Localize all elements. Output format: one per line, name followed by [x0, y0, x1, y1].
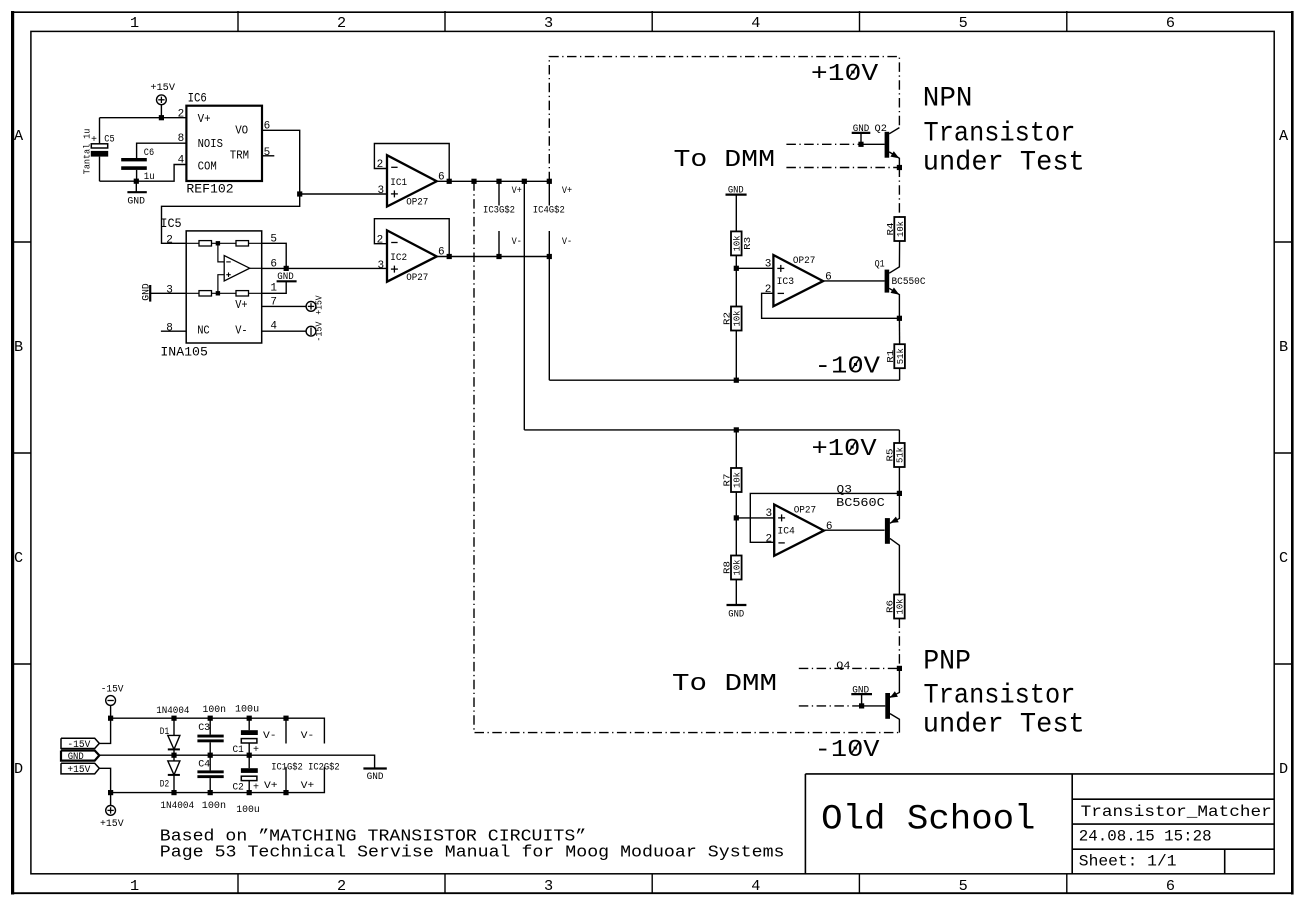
svg-text:+10V: +10V: [811, 61, 879, 88]
connector flag -15V: [61, 718, 111, 751]
svg-text:Q1: Q1: [875, 260, 885, 271]
svg-text:8: 8: [178, 133, 185, 145]
svg-text:4: 4: [751, 877, 760, 895]
wire IC4 output to Q3 base: [824, 529, 885, 531]
frame row labels right: [1279, 127, 1289, 778]
wire -10V net from IC2 output: [437, 254, 552, 259]
svg-text:1: 1: [270, 283, 277, 295]
svg-text:IC3: IC3: [777, 277, 795, 288]
op-amp IC2 OP27: [377, 230, 445, 284]
svg-text:C: C: [14, 549, 23, 567]
IC2 feedback wire pin2 to pin6: [374, 219, 449, 257]
frame column labels bottom: [130, 877, 1175, 895]
op-amp IC4 OP27: [766, 505, 833, 556]
svg-text:6: 6: [1166, 14, 1175, 32]
svg-text:IC3G$2: IC3G$2: [483, 204, 515, 216]
wire C5/C6 bottom to IC6 pin4: [100, 165, 187, 184]
resistor R8 10k: [722, 518, 743, 605]
svg-text:3: 3: [544, 877, 553, 895]
svg-text:OP27: OP27: [793, 256, 816, 267]
resistor R3 10k: [731, 231, 753, 255]
svg-text:Transistor: Transistor: [924, 118, 1076, 149]
ground symbol GND right of PSU: [363, 769, 386, 784]
svg-text:Page 53 Technical Servise Manu: Page 53 Technical Servise Manual for Moo…: [160, 844, 785, 863]
wire V+ rail: [108, 767, 324, 795]
svg-text:Tantal 1u: Tantal 1u: [82, 129, 93, 175]
net label +10V (NPN): [811, 61, 879, 88]
frame column labels top: [130, 14, 1175, 32]
svg-text:OP27: OP27: [794, 506, 817, 517]
IC5 pin 5 feedback wire: [262, 234, 287, 269]
svg-text:C5: C5: [104, 134, 114, 145]
svg-text:2: 2: [166, 234, 173, 246]
svg-text:3: 3: [766, 508, 773, 520]
svg-text:V+: V+: [512, 186, 522, 197]
capacitor C3 100n: [197, 718, 223, 755]
capacitor C4 100n: [197, 755, 223, 792]
svg-text:GND: GND: [367, 772, 384, 783]
svg-text:IC4G$2: IC4G$2: [533, 204, 565, 216]
IC IC5 INA105 body: [160, 216, 261, 359]
svg-text:6: 6: [826, 521, 833, 533]
svg-text:C1: C1: [233, 745, 244, 756]
IC IC6 REF102 body: [186, 90, 262, 196]
svg-text:R3: R3: [742, 237, 753, 250]
title block outline: [805, 774, 1274, 874]
svg-text:OP27: OP27: [406, 273, 428, 284]
dash-dot wire Q4 emitter to DMM: [799, 661, 902, 672]
svg-text:Sheet: 1/1: Sheet: 1/1: [1079, 853, 1177, 871]
svg-text:GND: GND: [853, 124, 870, 135]
wire R3 to IC3 pin3 node: [734, 255, 774, 271]
svg-text:-10V: -10V: [815, 737, 880, 764]
svg-text:V-: V-: [512, 237, 522, 248]
svg-text:51k: 51k: [895, 447, 906, 463]
svg-text:IC4: IC4: [777, 526, 795, 537]
IC1 feedback wire pin2 to pin6: [374, 144, 449, 182]
svg-text:Q3: Q3: [837, 485, 852, 497]
capacitor C5 Tantal 1u: [82, 118, 115, 182]
op-amp IC1 OP27: [377, 155, 445, 209]
frame row dividers right band: [1274, 242, 1292, 664]
svg-text:INA105: INA105: [160, 344, 208, 359]
wire +10V net from IC1 output: [437, 179, 552, 184]
svg-text:C: C: [1279, 549, 1288, 567]
ground symbol GND below R8: [727, 605, 747, 621]
svg-text:PNP: PNP: [923, 646, 971, 677]
svg-text:100u: 100u: [236, 805, 259, 816]
resistor R4 10k: [885, 217, 906, 241]
capacitor C6 1u: [121, 143, 186, 183]
svg-text:OP27: OP27: [406, 198, 428, 209]
dash-dot wire Q2 emitter to DMM: [786, 167, 899, 169]
svg-text:2: 2: [377, 234, 384, 246]
IC1 supply stub V-: [285, 718, 287, 743]
IC5 pin 3 wire and GND symbol: [142, 283, 187, 301]
svg-text:2: 2: [178, 109, 185, 121]
resistor R6 10k: [885, 595, 906, 619]
svg-text:-10V: -10V: [815, 354, 881, 381]
resistor R7 10k: [722, 430, 743, 518]
IC6 pin number 5 and TRM stub: [262, 147, 274, 159]
frame row labels left: [14, 127, 24, 778]
svg-text:To DMM: To DMM: [674, 147, 776, 174]
svg-text:B: B: [1279, 338, 1288, 356]
svg-text:3: 3: [765, 259, 772, 271]
frame column dividers top band: [238, 11, 1067, 31]
wire +10V top rail (PNP): [524, 427, 899, 432]
wire -10V bottom rail (NPN): [549, 378, 899, 383]
svg-text:C6: C6: [144, 148, 154, 159]
svg-text:3: 3: [378, 185, 385, 197]
resistor R2 10k: [722, 268, 743, 380]
IC5 internal input resistors and op-amp: [186, 241, 262, 296]
IC1 supply stub V+: [285, 767, 287, 793]
frame column dividers bottom band: [238, 875, 1067, 894]
ground symbol GND above R3: [726, 186, 747, 197]
transistor Q1 BC550C: [875, 260, 926, 319]
svg-text:GND: GND: [852, 685, 869, 696]
wire IC6 VO to IC1 pin3 and IC5 pin2: [162, 130, 388, 243]
wire +15V to IC6 pin2 and C5: [100, 115, 187, 120]
svg-text:+: +: [253, 745, 259, 756]
svg-text:5: 5: [959, 14, 968, 32]
frame row dividers left band: [11, 242, 31, 664]
svg-text:GND: GND: [142, 283, 153, 300]
svg-text:GND: GND: [127, 196, 145, 207]
svg-text:4: 4: [270, 321, 277, 333]
IC3 supply stub V+: [498, 181, 500, 205]
svg-text:2: 2: [337, 877, 346, 895]
svg-text:1: 1: [130, 14, 139, 32]
svg-text:V-: V-: [235, 324, 247, 337]
svg-text:D1: D1: [160, 727, 169, 738]
svg-text:1: 1: [130, 877, 139, 895]
svg-text:Transistor: Transistor: [924, 681, 1076, 712]
svg-text:GND: GND: [277, 272, 294, 283]
svg-text:10k: 10k: [732, 235, 743, 251]
svg-text:C4: C4: [198, 759, 210, 770]
wire -10V vertical to NPN bottom rail: [548, 257, 550, 381]
wire R7 to IC4 pin3 node: [734, 515, 775, 520]
svg-text:24.08.15 15:28: 24.08.15 15:28: [1079, 827, 1212, 845]
diode D1 1N4004: [160, 718, 180, 755]
svg-text:1N4004: 1N4004: [160, 801, 194, 812]
op-amp IC3 OP27: [765, 255, 832, 306]
capacitor C2 100u polarized: [233, 755, 260, 793]
dash-dot DMM loop PNP +10V to Q4 rail: [474, 181, 900, 732]
dash-dot DMM loop NPN +10V to Q2 collector: [549, 57, 899, 182]
wire IC3 output to Q1 base: [823, 280, 885, 282]
IC3 feedback wire pin2 to Q1 emitter: [762, 293, 902, 321]
svg-text:10k: 10k: [895, 598, 906, 614]
capacitor C1 100u polarized: [233, 718, 260, 756]
svg-text:IC2: IC2: [390, 253, 407, 264]
svg-text:A: A: [14, 127, 24, 145]
svg-text:under Test: under Test: [923, 710, 1085, 741]
wire V+ vertical to PNP rail: [523, 181, 525, 430]
svg-text:D2: D2: [160, 780, 169, 791]
ground symbol GND at Q2 base: [852, 124, 871, 147]
resistor R5 51k: [885, 430, 906, 494]
ground symbol GND at Q4 base: [851, 685, 872, 708]
ground symbol GND at IC5 pin1: [262, 272, 297, 295]
IC4 feedback wire pin2 to Q3 emitter node: [750, 491, 902, 543]
svg-text:-15V: -15V: [314, 321, 325, 341]
svg-text:VO: VO: [235, 124, 248, 137]
svg-text:V+: V+: [264, 781, 278, 792]
net label -10V (NPN): [815, 354, 881, 381]
svg-text:BC560C: BC560C: [836, 497, 885, 510]
supply symbol +15V at IC6: [150, 83, 175, 118]
wire R4 to Q1 collector: [889, 241, 899, 273]
svg-text:8: 8: [166, 323, 173, 335]
svg-text:V+: V+: [235, 299, 247, 312]
net label -10V (PNP): [815, 737, 880, 764]
resistor R1 51k: [885, 318, 906, 380]
net label +10V (PNP): [812, 436, 878, 463]
dash-dot wire Q2 base to DMM: [786, 143, 884, 145]
connector flag GND: [61, 751, 99, 763]
svg-text:A: A: [1279, 127, 1289, 145]
svg-text:C2: C2: [233, 783, 244, 794]
svg-text:Old School: Old School: [821, 800, 1035, 840]
svg-text:Q2: Q2: [875, 124, 887, 135]
svg-text:C3: C3: [198, 723, 210, 734]
svg-text:GND: GND: [68, 752, 84, 763]
svg-text:IC6: IC6: [188, 90, 207, 105]
svg-text:under Test: under Test: [923, 147, 1085, 178]
svg-text:4: 4: [751, 14, 760, 32]
svg-text:NOIS: NOIS: [198, 138, 223, 151]
svg-text:3: 3: [544, 14, 553, 32]
svg-text:NC: NC: [197, 324, 210, 337]
transistor Q2 NPN under test: [875, 124, 903, 170]
transistor Q3 BC560C: [836, 485, 899, 595]
svg-text:3: 3: [166, 284, 173, 296]
svg-text:51k: 51k: [895, 348, 906, 364]
svg-text:2: 2: [337, 14, 346, 32]
svg-text:V-: V-: [263, 731, 277, 742]
svg-text:NPN: NPN: [923, 84, 973, 115]
svg-text:B: B: [14, 338, 23, 356]
ground symbol GND below C6: [127, 181, 146, 207]
IC5 pin 6 output wire to IC2: [262, 258, 387, 271]
svg-text:IC1: IC1: [390, 178, 407, 189]
svg-text:3: 3: [378, 260, 385, 272]
svg-text:+15V: +15V: [100, 819, 124, 830]
transistor Q4 PNP under test: [885, 668, 899, 732]
IC4 supply stub V+: [548, 181, 550, 205]
supply symbol -15V top: [101, 685, 124, 719]
svg-text:10k: 10k: [732, 310, 743, 326]
connector flag +15V: [61, 763, 111, 792]
svg-text:TRM: TRM: [230, 150, 249, 163]
svg-text:1N4004: 1N4004: [156, 706, 189, 717]
wire V- rail: [108, 716, 324, 744]
svg-text:COM: COM: [198, 160, 217, 173]
svg-text:To DMM: To DMM: [672, 671, 777, 698]
svg-text:V-: V-: [562, 237, 572, 248]
svg-text:+15V: +15V: [150, 83, 175, 94]
svg-text:4: 4: [178, 155, 185, 167]
svg-text:D: D: [1279, 760, 1288, 778]
supply symbol -15V at IC5 pin4: [262, 321, 325, 342]
svg-text:Q4: Q4: [836, 661, 850, 672]
svg-text:-15V: -15V: [101, 685, 124, 696]
svg-text:-15V: -15V: [67, 740, 90, 751]
svg-text:IC1G$2 IC2G$2: IC1G$2 IC2G$2: [271, 761, 340, 773]
svg-text:REF102: REF102: [186, 181, 233, 196]
svg-text:100n: 100n: [203, 705, 227, 716]
svg-text:+15V: +15V: [67, 765, 90, 776]
svg-text:100u: 100u: [235, 704, 259, 715]
supply symbol +15V at IC5 pin7: [262, 295, 325, 315]
svg-text:V+: V+: [198, 113, 211, 126]
svg-text:Transistor_Matcher: Transistor_Matcher: [1081, 803, 1272, 821]
svg-text:5: 5: [264, 147, 271, 159]
svg-text:V-: V-: [301, 731, 314, 742]
svg-text:10k: 10k: [895, 221, 906, 237]
supply symbol +15V bottom: [100, 793, 124, 831]
IC3 supply stub V-: [498, 231, 500, 257]
svg-text:+: +: [253, 783, 259, 794]
svg-text:BC550C: BC550C: [892, 277, 926, 288]
svg-text:100n: 100n: [202, 801, 226, 812]
svg-text:6: 6: [1166, 877, 1175, 895]
wire GND to R3: [735, 195, 737, 232]
svg-text:+15V: +15V: [314, 295, 325, 315]
svg-text:V+: V+: [301, 781, 314, 792]
svg-text:GND: GND: [728, 610, 744, 621]
svg-text:2: 2: [377, 159, 384, 171]
svg-text:+10V: +10V: [812, 436, 878, 463]
svg-text:2: 2: [766, 534, 773, 546]
svg-text:IC5: IC5: [160, 216, 181, 231]
svg-text:5: 5: [270, 234, 277, 246]
dash-dot wire Q2 emitter to R4: [898, 168, 900, 218]
svg-text:D: D: [14, 760, 23, 778]
svg-text:7: 7: [270, 296, 277, 308]
svg-text:6: 6: [825, 272, 832, 284]
svg-text:2: 2: [765, 284, 772, 296]
dash-dot wire R6 to Q4 emitter: [898, 619, 900, 669]
IC4 supply stub V-: [548, 231, 550, 257]
dash-dot wire Q4 base to DMM: [799, 705, 886, 707]
svg-text:6: 6: [270, 258, 277, 270]
svg-text:V+: V+: [562, 186, 572, 197]
IC5 pin 8 NC stub: [161, 323, 186, 335]
diode D2 1N4004: [160, 755, 180, 792]
svg-text:10k: 10k: [732, 472, 743, 488]
svg-text:10k: 10k: [732, 559, 743, 575]
svg-text:5: 5: [959, 877, 968, 895]
wire GND rail: [99, 753, 374, 769]
